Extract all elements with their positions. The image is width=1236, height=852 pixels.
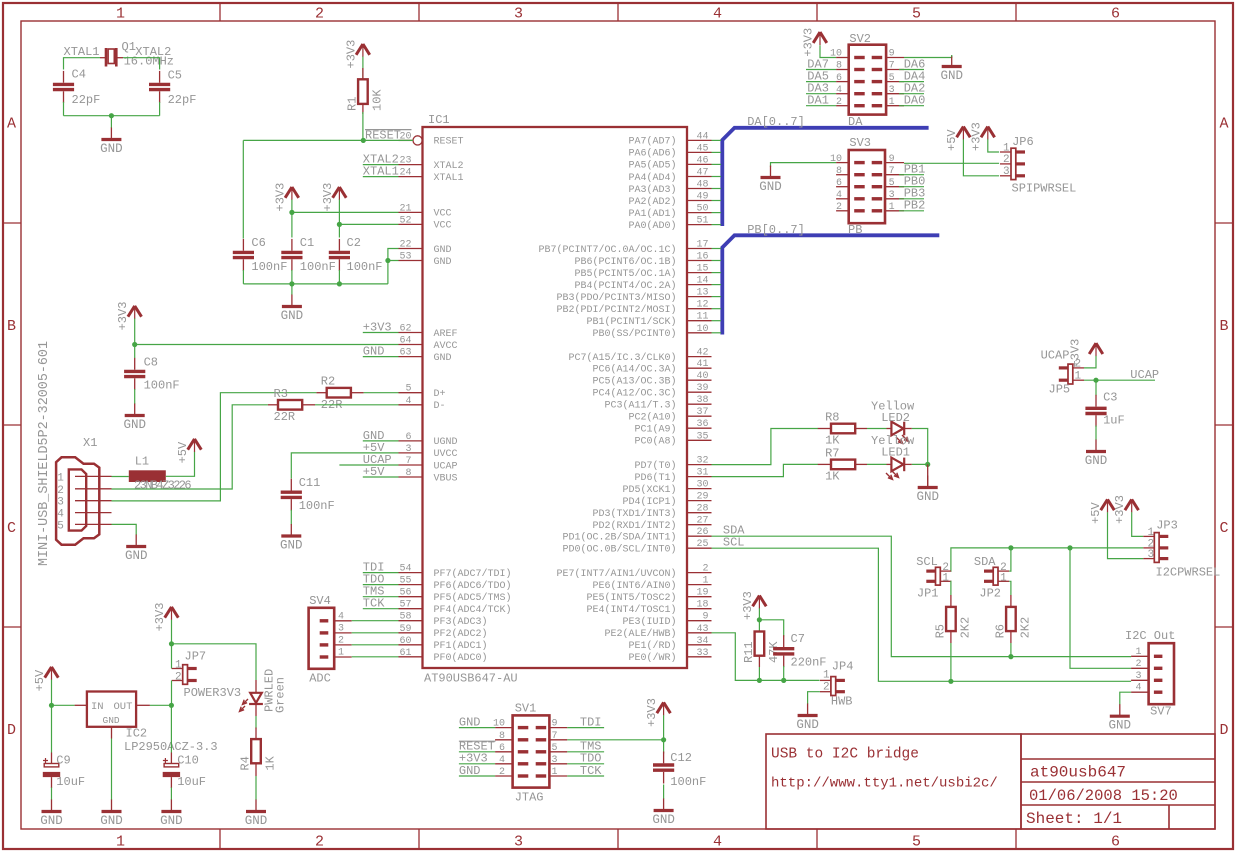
ground — [281, 295, 304, 324]
svg-text:2: 2 — [702, 564, 708, 575]
svg-text:55: 55 — [399, 576, 411, 587]
svg-text:C2: C2 — [347, 236, 361, 250]
wire JP7 pin2 to OUT — [171, 681, 173, 706]
capacitor C3 1uF — [1085, 390, 1124, 427]
svg-text:9: 9 — [889, 154, 895, 165]
ground — [280, 524, 303, 553]
svg-text:+3V3: +3V3 — [321, 183, 335, 212]
wire gnd rail under C6 C1 C2 — [243, 270, 388, 295]
svg-text:JP7: JP7 — [185, 650, 207, 664]
wire JTAG left nets — [459, 716, 496, 778]
svg-text:PE5(INT5/TOSC2): PE5(INT5/TOSC2) — [586, 592, 676, 604]
svg-text:PA3(AD3): PA3(AD3) — [628, 184, 676, 196]
svg-text:GND: GND — [281, 309, 304, 323]
connector SV7 I2C Out — [1125, 629, 1175, 719]
svg-text:SPIPWRSEL: SPIPWRSEL — [1012, 182, 1077, 196]
svg-text:39: 39 — [696, 383, 708, 394]
wire bus entries PA — [712, 140, 722, 224]
svg-text:30: 30 — [696, 480, 708, 491]
wire crystal gnd rail — [64, 102, 160, 128]
svg-text:7: 7 — [889, 61, 895, 72]
wire RESET net — [243, 112, 413, 239]
wire SV3 pin9 to JP6 — [904, 162, 999, 164]
svg-text:C1: C1 — [300, 236, 314, 250]
svg-text:R6: R6 — [993, 624, 1007, 638]
svg-text:R1: R1 — [345, 97, 359, 111]
svg-text:R11: R11 — [742, 641, 756, 663]
svg-text:33: 33 — [696, 648, 708, 659]
svg-text:AVCC: AVCC — [434, 341, 458, 352]
svg-text:31: 31 — [696, 468, 708, 479]
svg-text:29: 29 — [696, 492, 708, 503]
capacitor C8 100nF — [124, 356, 180, 393]
LED PWRLED Green — [240, 669, 288, 716]
svg-text:GND: GND — [459, 716, 481, 730]
svg-text:JP2: JP2 — [979, 587, 1001, 601]
svg-text:4: 4 — [713, 834, 722, 851]
capacitor C7 220nF — [773, 632, 826, 669]
svg-text:9: 9 — [702, 612, 708, 623]
svg-text:10K: 10K — [370, 89, 384, 111]
svg-text:http://www.tty1.net/usbi2c/: http://www.tty1.net/usbi2c/ — [771, 776, 998, 792]
svg-text:5: 5 — [889, 178, 895, 189]
svg-text:USB to I2C bridge: USB to I2C bridge — [771, 747, 919, 763]
svg-text:L1: L1 — [135, 454, 149, 468]
svg-text:PB6(PCINT6/OC.1B): PB6(PCINT6/OC.1B) — [574, 256, 676, 268]
connector SV4 ADC — [309, 594, 352, 686]
svg-text:VBUS: VBUS — [434, 473, 458, 484]
svg-text:R7: R7 — [825, 446, 839, 460]
svg-text:9: 9 — [552, 719, 558, 730]
svg-text:PB4(PCINT4/OC.2A): PB4(PCINT4/OC.2A) — [574, 280, 676, 292]
svg-text:12: 12 — [696, 300, 708, 311]
svg-text:3: 3 — [514, 834, 523, 851]
wire R8 to LED2 — [867, 428, 887, 430]
ground — [940, 57, 963, 84]
svg-text:57: 57 — [399, 600, 411, 611]
svg-text:PC7(A15/IC.3/CLK0): PC7(A15/IC.3/CLK0) — [568, 352, 676, 364]
svg-text:34: 34 — [696, 636, 708, 647]
svg-text:18: 18 — [696, 600, 708, 611]
svg-text:63: 63 — [399, 348, 411, 359]
svg-text:PB[0..7]: PB[0..7] — [747, 223, 805, 237]
svg-text:2: 2 — [57, 485, 64, 497]
svg-text:6: 6 — [1111, 834, 1120, 851]
svg-text:Q1: Q1 — [122, 40, 136, 54]
power +5V — [176, 439, 201, 464]
svg-text:GND: GND — [40, 814, 63, 828]
svg-text:+3V3: +3V3 — [645, 698, 659, 727]
ground — [916, 476, 939, 505]
power +3V3 — [741, 591, 766, 620]
wire XTAL2 net — [123, 58, 160, 70]
LED LED2 Yellow — [871, 399, 915, 443]
svg-text:28: 28 — [696, 504, 708, 515]
svg-text:1: 1 — [702, 576, 708, 587]
svg-text:100nF: 100nF — [144, 379, 180, 393]
svg-text:2: 2 — [1135, 659, 1141, 670]
wire +5V to JP3 pin3 — [1108, 512, 1144, 558]
svg-text:D: D — [1219, 722, 1228, 739]
svg-text:PD5(XCK1): PD5(XCK1) — [622, 484, 676, 496]
svg-text:2: 2 — [823, 681, 830, 693]
svg-text:100nF: 100nF — [299, 499, 335, 513]
svg-text:A: A — [7, 116, 16, 133]
svg-text:GND: GND — [459, 764, 481, 778]
wire JP2 to rail and R6 — [1009, 548, 1011, 596]
svg-text:UCAP: UCAP — [434, 461, 458, 472]
svg-text:+3V3: +3V3 — [741, 591, 755, 620]
svg-text:UGND: UGND — [434, 437, 458, 448]
capacitor C4 22pF — [53, 68, 100, 108]
svg-text:LED1: LED1 — [881, 446, 910, 460]
connector SV1 JTAG — [493, 702, 567, 805]
op-amp U1 IC1 AT90USB647-AU microcontroller — [399, 113, 712, 686]
power +3V3 — [153, 603, 178, 632]
capacitor C11 100nF — [281, 476, 335, 513]
svg-text:2: 2 — [836, 97, 842, 108]
svg-text:PF5(ADC5/TMS): PF5(ADC5/TMS) — [434, 592, 512, 604]
connector SV3 — [830, 136, 904, 223]
svg-text:PE1(/RD): PE1(/RD) — [628, 640, 676, 652]
wire SV7 pin4 to gnd — [1120, 692, 1131, 704]
LED LED1 Yellow — [871, 434, 915, 479]
wire R5 to SCL — [950, 631, 952, 681]
wire I2C pull-up rail — [951, 545, 1143, 668]
svg-text:50: 50 — [696, 204, 708, 215]
capacitor C12 100nF — [653, 751, 706, 789]
svg-text:2: 2 — [175, 672, 182, 684]
svg-text:XTAL2: XTAL2 — [434, 161, 464, 172]
title block — [766, 734, 1215, 829]
svg-text:6: 6 — [836, 178, 842, 189]
svg-text:DA0: DA0 — [904, 94, 926, 108]
wire +5V to IN and C9 — [49, 680, 75, 753]
svg-text:27: 27 — [696, 516, 708, 527]
svg-text:13: 13 — [696, 288, 708, 299]
svg-text:47K: 47K — [767, 641, 781, 663]
svg-text:42: 42 — [696, 348, 708, 359]
power +3V3 — [969, 122, 994, 151]
svg-text:19: 19 — [696, 588, 708, 599]
svg-text:at90usb647: at90usb647 — [1030, 764, 1126, 782]
svg-text:C9: C9 — [56, 753, 70, 767]
svg-text:XTAL1: XTAL1 — [64, 45, 100, 59]
svg-text:10: 10 — [696, 324, 708, 335]
svg-text:+5V: +5V — [945, 129, 959, 151]
svg-text:3: 3 — [1148, 549, 1155, 561]
wire SDA net — [712, 524, 1132, 660]
wire +5V to JP6 pin3 — [963, 139, 999, 176]
regulator IC2 LP2950ACZ-3.3 — [75, 692, 218, 755]
node UCAP label pin 7 — [339, 453, 398, 467]
svg-text:2K2: 2K2 — [958, 617, 972, 639]
svg-text:4: 4 — [405, 396, 411, 407]
svg-text:GND: GND — [796, 718, 819, 732]
svg-text:1K: 1K — [264, 755, 278, 770]
wire IC2 gnd — [111, 739, 113, 801]
wire USB pin5 to gnd — [112, 524, 137, 535]
svg-text:PD7(T0): PD7(T0) — [634, 460, 676, 472]
wire R4 to gnd — [255, 763, 257, 800]
svg-text:53: 53 — [399, 252, 411, 263]
resistor R6 2K2 — [1010, 595, 1012, 607]
power +3V3 — [645, 698, 670, 727]
svg-text:1: 1 — [942, 572, 949, 584]
svg-text:HWB: HWB — [831, 694, 853, 708]
svg-text:PB0(SS/PCINT0): PB0(SS/PCINT0) — [592, 328, 676, 340]
svg-text:PE3(IUID): PE3(IUID) — [622, 616, 676, 628]
svg-text:1: 1 — [1003, 142, 1010, 154]
svg-text:8: 8 — [836, 61, 842, 72]
svg-text:ADC: ADC — [309, 672, 331, 686]
svg-text:14: 14 — [696, 276, 708, 287]
resistor R3 22R — [268, 404, 315, 406]
svg-text:49: 49 — [696, 192, 708, 203]
svg-text:6: 6 — [405, 432, 411, 443]
node XTAL2 label pin 23 — [363, 153, 399, 167]
svg-text:16: 16 — [696, 252, 708, 263]
jumper JP1 SCL — [926, 562, 951, 585]
svg-text:6: 6 — [1111, 6, 1120, 23]
node TDI TDO TMS TCK labels — [363, 561, 399, 611]
svg-text:5: 5 — [889, 73, 895, 84]
wire R7 to LED1 — [867, 463, 887, 465]
svg-text:PE2(ALE/HWB): PE2(ALE/HWB) — [604, 628, 676, 640]
svg-text:3: 3 — [1003, 166, 1010, 178]
wire GND pins 22 53 — [385, 249, 398, 284]
svg-text:3: 3 — [552, 755, 558, 766]
svg-text:6: 6 — [836, 73, 842, 84]
svg-text:MINI-USB_SHIELD5P2-32005-601: MINI-USB_SHIELD5P2-32005-601 — [37, 341, 52, 566]
jumper JP4 HWB — [820, 670, 845, 696]
svg-text:46: 46 — [696, 155, 708, 166]
svg-text:16.0MHz: 16.0MHz — [124, 54, 174, 68]
svg-text:48: 48 — [696, 180, 708, 191]
svg-text:Sheet: 1/1: Sheet: 1/1 — [1026, 810, 1122, 828]
svg-text:Green: Green — [274, 677, 288, 713]
ground — [100, 800, 123, 829]
svg-text:6: 6 — [499, 743, 505, 754]
svg-text:PB2: PB2 — [904, 199, 926, 213]
svg-text:X1: X1 — [83, 436, 97, 450]
svg-text:40: 40 — [696, 371, 708, 382]
bus DA[0..7] — [722, 128, 928, 226]
wire PE2 HWB net — [712, 633, 820, 683]
svg-text:+5V: +5V — [363, 465, 385, 479]
capacitor C9 10uF — [43, 753, 85, 790]
svg-text:54: 54 — [399, 564, 411, 575]
svg-text:GND: GND — [363, 345, 385, 359]
svg-text:5: 5 — [912, 6, 921, 23]
jumper JP2 SDA — [984, 562, 1009, 585]
svg-text:PC1(A9): PC1(A9) — [634, 424, 676, 436]
power +3V3 — [321, 183, 346, 212]
power +3V3 — [344, 40, 369, 69]
wire +3V3 to C12 — [661, 715, 666, 753]
svg-text:PF1(ADC1): PF1(ADC1) — [434, 640, 488, 652]
power +5V — [945, 127, 970, 152]
wire C10 to gnd — [170, 788, 172, 801]
svg-text:PC3(A11/T.3): PC3(A11/T.3) — [604, 400, 676, 412]
svg-text:UCAP: UCAP — [1041, 349, 1070, 363]
wire bus entries PB — [712, 249, 722, 333]
svg-text:23NB4Z3226: 23NB4Z3226 — [134, 478, 191, 492]
svg-text:8: 8 — [405, 468, 411, 479]
svg-text:PD1(OC.2B/SDA/INT1): PD1(OC.2B/SDA/INT1) — [562, 532, 676, 544]
wire R6 to SDA — [1010, 631, 1012, 657]
wire SV2 pin10 +3V3 — [820, 45, 836, 57]
svg-text:PB7(PCINT7/OC.0A/OC.1C): PB7(PCINT7/OC.0A/OC.1C) — [538, 244, 676, 256]
wire LED1 to gnd — [912, 462, 931, 488]
svg-text:GND: GND — [1109, 719, 1132, 733]
svg-text:C6: C6 — [251, 236, 265, 250]
wire LED to R4 — [255, 716, 257, 729]
svg-text:21: 21 — [399, 203, 411, 214]
resistor R8 1K — [818, 428, 867, 430]
svg-text:3: 3 — [405, 444, 411, 455]
svg-text:8: 8 — [499, 731, 505, 742]
svg-text:+5V: +5V — [1089, 501, 1103, 523]
svg-text:+3V3: +3V3 — [344, 40, 358, 69]
svg-text:PB5(PCINT5/OC.1A): PB5(PCINT5/OC.1A) — [574, 268, 676, 280]
resistor R4 1K — [255, 728, 257, 740]
svg-text:7: 7 — [405, 456, 411, 467]
svg-text:+3V3: +3V3 — [969, 122, 983, 151]
svg-text:100nF: 100nF — [670, 775, 706, 789]
resistor R5 2K2 — [950, 595, 952, 607]
wire C7 bottom — [783, 666, 785, 680]
svg-text:1: 1 — [1148, 527, 1155, 539]
jumper JP7 — [172, 660, 197, 685]
svg-text:36: 36 — [696, 419, 708, 430]
wire SV3 PB nets — [899, 163, 925, 213]
svg-text:C: C — [7, 520, 16, 537]
resistor R11 47K — [742, 632, 781, 664]
svg-text:SCL: SCL — [723, 536, 745, 550]
inductor L1 — [112, 454, 192, 492]
svg-text:PC6(A14/OC.3A): PC6(A14/OC.3A) — [592, 364, 676, 376]
svg-text:PE4(INT4/TOSC1): PE4(INT4/TOSC1) — [586, 604, 676, 616]
svg-text:AT90USB647-AU: AT90USB647-AU — [424, 672, 518, 686]
svg-text:I2CPWRSEL: I2CPWRSEL — [1156, 566, 1221, 580]
svg-text:R2: R2 — [321, 375, 335, 389]
svg-text:PB: PB — [848, 223, 862, 237]
svg-text:2K2: 2K2 — [1018, 617, 1032, 639]
svg-text:GND: GND — [940, 69, 963, 83]
svg-text:R3: R3 — [274, 387, 288, 401]
svg-text:2: 2 — [1003, 154, 1010, 166]
power +3V3 — [273, 183, 298, 212]
node XTAL1 label pin 24 — [363, 165, 399, 179]
wire OUT net to C10 — [150, 703, 174, 753]
svg-text:220nF: 220nF — [791, 655, 827, 669]
wire XTAL1 net — [64, 45, 101, 69]
svg-text:PD3(TXD1/INT3): PD3(TXD1/INT3) — [592, 508, 676, 520]
svg-text:PC5(A13/OC.3B): PC5(A13/OC.3B) — [592, 376, 676, 388]
svg-text:1: 1 — [1135, 647, 1141, 658]
wire JP4 pin2 to gnd — [808, 692, 820, 704]
svg-text:PB1(PCINT1/SCK): PB1(PCINT1/SCK) — [586, 316, 676, 328]
svg-text:RESET: RESET — [434, 137, 464, 148]
svg-text:1: 1 — [823, 670, 830, 682]
svg-text:A: A — [1219, 116, 1228, 133]
svg-text:45: 45 — [696, 143, 708, 154]
svg-text:JP4: JP4 — [832, 659, 854, 673]
svg-text:C: C — [1219, 520, 1228, 537]
ground — [1109, 704, 1132, 733]
svg-text:PD0(OC.0B/SCL/INT0): PD0(OC.0B/SCL/INT0) — [562, 544, 676, 556]
ground — [160, 800, 183, 829]
svg-text:OUT: OUT — [114, 701, 133, 713]
wire SV2 pin9 gnd — [904, 55, 952, 58]
capacitor C10 10uF — [163, 753, 206, 790]
svg-text:R5: R5 — [933, 624, 947, 638]
svg-text:C12: C12 — [670, 751, 692, 765]
svg-text:2: 2 — [338, 635, 344, 646]
ground — [100, 128, 123, 157]
svg-text:1: 1 — [116, 6, 125, 23]
svg-text:GND: GND — [100, 814, 123, 828]
svg-text:44: 44 — [696, 131, 708, 142]
svg-text:PE7(INT7/AIN1/UVCON): PE7(INT7/AIN1/UVCON) — [556, 568, 676, 580]
svg-text:15: 15 — [696, 264, 708, 275]
ground — [759, 166, 782, 195]
svg-text:4: 4 — [836, 85, 842, 96]
svg-text:1: 1 — [889, 202, 895, 213]
svg-text:IC2: IC2 — [126, 726, 148, 740]
svg-text:DA1: DA1 — [807, 94, 829, 108]
svg-text:2: 2 — [836, 202, 842, 213]
svg-text:41: 41 — [696, 359, 708, 370]
svg-text:GND: GND — [280, 539, 303, 553]
svg-text:JP5: JP5 — [1049, 383, 1071, 397]
svg-text:TDI: TDI — [580, 716, 602, 730]
svg-text:GND: GND — [160, 814, 183, 828]
svg-text:GND: GND — [245, 814, 268, 828]
wire D- net — [112, 405, 399, 489]
svg-text:23: 23 — [399, 156, 411, 167]
svg-text:PE0(/WR): PE0(/WR) — [628, 652, 676, 664]
svg-text:2: 2 — [499, 767, 505, 778]
power +3V3 — [1113, 495, 1138, 524]
resistor R7 1K — [818, 463, 867, 465]
svg-text:2: 2 — [315, 834, 324, 851]
svg-text:56: 56 — [399, 588, 411, 599]
capacitor C6 100nF — [233, 236, 288, 274]
svg-text:4: 4 — [713, 6, 722, 23]
wire SV3 pin10 to gnd — [771, 163, 837, 167]
svg-text:R8: R8 — [825, 411, 839, 425]
wire SCL net — [712, 536, 1132, 684]
svg-text:1: 1 — [889, 97, 895, 108]
svg-text:+5V: +5V — [33, 669, 47, 691]
jumper JP5 UCAP — [1059, 358, 1084, 384]
svg-text:3: 3 — [514, 6, 523, 23]
svg-text:1K: 1K — [825, 470, 840, 484]
svg-text:IN: IN — [91, 701, 104, 713]
wire JP1 to R5 — [950, 581, 953, 595]
svg-text:1: 1 — [57, 472, 64, 484]
svg-text:C3: C3 — [1103, 390, 1117, 404]
svg-text:GND: GND — [759, 180, 782, 194]
svg-text:1uF: 1uF — [1103, 413, 1125, 427]
svg-text:100nF: 100nF — [251, 260, 287, 274]
svg-text:SV7: SV7 — [1150, 705, 1172, 719]
ground — [796, 704, 819, 733]
svg-text:62: 62 — [399, 324, 411, 335]
svg-text:9: 9 — [889, 49, 895, 60]
